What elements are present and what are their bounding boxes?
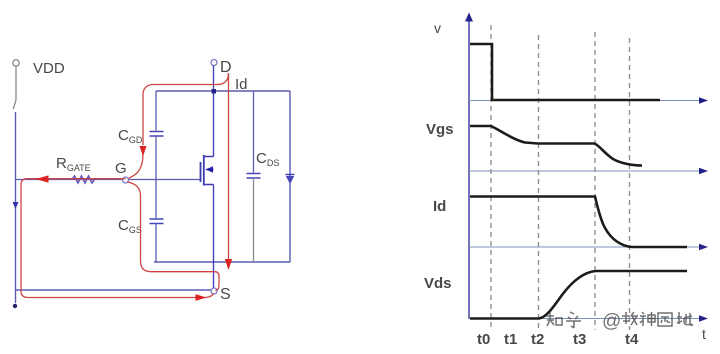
- red arrow down Id near S: [225, 259, 232, 270]
- waveform v: [470, 44, 660, 100]
- svg-text:t3: t3: [573, 331, 586, 348]
- svg-text:Vgs: Vgs: [426, 121, 454, 138]
- red arrow left on gate wire: [36, 175, 49, 182]
- svg-text:t0: t0: [477, 331, 490, 348]
- axis horizontal t row: [469, 318, 701, 320]
- gridline t0 dashed: [490, 25, 492, 330]
- gridline t2 dashed: [538, 35, 540, 330]
- red path CGD/CGS loop: [127, 73, 229, 291]
- svg-text:v: v: [434, 20, 441, 36]
- svg-text:Id: Id: [433, 198, 446, 215]
- terminal VDD: [13, 60, 19, 66]
- svg-text:t4: t4: [625, 331, 639, 348]
- wire drain lead: [213, 66, 215, 157]
- arrowhead axis top: [465, 13, 473, 22]
- red arrow right on bottom return: [196, 294, 207, 301]
- axis horizontal Vgs row: [469, 170, 701, 172]
- wire left vertical + bottom rail to S: [16, 112, 213, 290]
- waveform Vds: [470, 271, 687, 319]
- svg-text:S: S: [220, 286, 231, 303]
- axis horizontal Id row: [469, 246, 701, 248]
- svg-text:CGD: CGD: [118, 127, 143, 145]
- svg-text:VDD: VDD: [33, 60, 65, 77]
- wire gate horizontal: [16, 179, 201, 181]
- svg-text:Vds: Vds: [424, 275, 452, 292]
- gridline t3 dashed: [594, 32, 596, 330]
- waveform Vgs: [470, 126, 642, 166]
- node G: [123, 177, 129, 183]
- axis horizontal v row: [469, 100, 701, 102]
- svg-text:RGATE: RGATE: [56, 155, 91, 173]
- junction dot drain/top-rail: [212, 89, 217, 94]
- axis vertical: [468, 20, 470, 319]
- svg-text:Id: Id: [235, 76, 248, 93]
- wire top rail: [156, 90, 290, 92]
- svg-text:t1: t1: [504, 331, 517, 348]
- wire bottom rail: [154, 261, 290, 263]
- svg-text:CGS: CGS: [118, 217, 142, 235]
- svg-text:G: G: [115, 160, 127, 177]
- wire right leg: [289, 91, 291, 262]
- terminal D: [211, 60, 217, 66]
- svg-text:@: @: [602, 311, 621, 332]
- gridline t4 dashed: [629, 38, 631, 330]
- svg-text:t2: t2: [531, 331, 544, 348]
- capacitor CGD: [150, 91, 164, 180]
- wire stub below bottom-left corner: [15, 290, 17, 303]
- diode body on right leg: [286, 175, 295, 185]
- terminal S: [211, 288, 217, 294]
- svg-text:t: t: [702, 326, 706, 342]
- waveform Id: [470, 197, 687, 248]
- capacitor CDS: [247, 91, 261, 262]
- resistor RGATE: [72, 176, 95, 183]
- wire source lead: [213, 185, 215, 289]
- watermark zhihu 知乎 @牧神园地: [546, 311, 693, 332]
- red path drain current Id: [228, 73, 230, 259]
- svg-text:CDS: CDS: [256, 150, 279, 168]
- svg-text:D: D: [220, 59, 232, 76]
- red arrow down through CGD: [140, 146, 147, 157]
- wire VDD lead: [15, 66, 17, 100]
- junction dot bottom-left: [13, 304, 17, 308]
- red path gate drive loop (G to RGATE to bottom to S): [21, 179, 214, 298]
- switch S1 (open): [13, 100, 16, 109]
- transistor Q1 MOSFET: [201, 155, 214, 186]
- current arrow blue on left wire: [13, 202, 19, 209]
- capacitor CGS: [150, 180, 164, 263]
